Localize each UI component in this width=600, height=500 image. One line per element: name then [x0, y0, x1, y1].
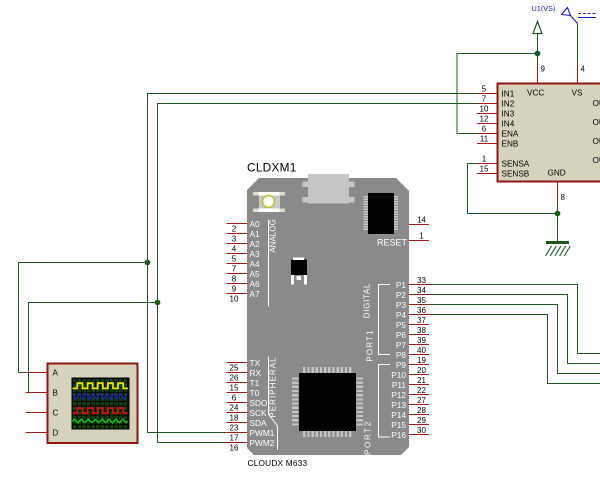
svg-text:1: 1: [482, 155, 487, 164]
svg-text:A: A: [53, 369, 59, 378]
label PERIPHERAL: [269, 356, 278, 417]
junction node scope B branch: [155, 300, 161, 306]
svg-text:5: 5: [232, 255, 237, 264]
board pin 39 (P7): [396, 336, 429, 350]
scope trace channel A yellow: [73, 383, 129, 388]
svg-text:P4: P4: [396, 310, 407, 320]
wire P4 out: [429, 315, 600, 384]
svg-text:PERIPHERAL: PERIPHERAL: [269, 356, 278, 417]
board pin 26 (RX): [227, 368, 262, 383]
U1 left pin names: [502, 89, 600, 179]
svg-text:RX: RX: [250, 368, 262, 378]
svg-text:6: 6: [232, 394, 237, 403]
svg-text:TX: TX: [250, 358, 261, 368]
label U1(VS): [532, 4, 556, 13]
board pin 23 (SDA): [227, 418, 268, 433]
op-amp U1 motor driver body: [498, 84, 600, 182]
wire VCC to ENA: [457, 54, 538, 134]
board pin 9 (A6): [227, 279, 261, 294]
svg-text:VS: VS: [572, 89, 583, 98]
power terminal flag U1(VS): [562, 8, 597, 24]
svg-text:28: 28: [417, 406, 426, 415]
board pin 40 (P8): [396, 346, 429, 360]
svg-text:P8: P8: [396, 350, 407, 360]
wire P1 out: [429, 285, 600, 354]
U1 pin 15 (SENSB): [477, 165, 498, 174]
board pin 38 (P6): [396, 326, 429, 340]
svg-text:CLOUDX M633: CLOUDX M633: [248, 458, 308, 468]
wire P2 out: [429, 295, 600, 364]
svg-text:SENSB: SENSB: [502, 170, 530, 179]
wire IN1 to PWM1: [148, 94, 478, 433]
board pin 27 (P13): [391, 396, 429, 410]
svg-text:P15: P15: [391, 420, 406, 430]
svg-text:P16: P16: [391, 430, 406, 440]
svg-text:24: 24: [230, 404, 239, 413]
board pin 34 (P2): [396, 286, 429, 300]
svg-text:A0: A0: [250, 219, 261, 229]
scope trace channel D green: [73, 419, 128, 423]
svg-text:A1: A1: [250, 229, 261, 239]
svg-text:12: 12: [480, 115, 489, 124]
svg-text:3: 3: [232, 235, 237, 244]
wire power to VCC pin: [537, 54, 539, 64]
svg-text:A4: A4: [250, 259, 261, 269]
svg-text:PORT2: PORT2: [364, 420, 373, 455]
board pin 2 (A0): [227, 219, 261, 234]
wire branch to scope A: [19, 263, 148, 373]
svg-text:9: 9: [541, 65, 546, 74]
svg-text:IN1: IN1: [502, 90, 515, 99]
svg-text:22: 22: [417, 386, 426, 395]
svg-text:19: 19: [417, 356, 426, 365]
svg-text:30: 30: [417, 426, 426, 435]
board pin 16 (PWM2): [227, 438, 275, 453]
svg-text:B: B: [53, 389, 58, 398]
svg-text:40: 40: [417, 346, 426, 355]
svg-text:20: 20: [417, 366, 426, 375]
label PORT2: [364, 420, 373, 455]
junction node VCC: [535, 51, 541, 57]
board pin 5 (A3): [227, 249, 261, 264]
svg-text:OUT3: OUT3: [593, 137, 600, 146]
svg-text:6: 6: [482, 125, 487, 134]
svg-text:29: 29: [417, 416, 426, 425]
svg-text:P13: P13: [391, 400, 406, 410]
push button: [253, 192, 285, 212]
PORT2 bracket: [379, 365, 391, 438]
voltage regulator: [291, 258, 307, 285]
svg-text:11: 11: [480, 135, 489, 144]
svg-text:36: 36: [417, 306, 426, 315]
svg-text:ENA: ENA: [502, 130, 519, 139]
svg-text:SDA: SDA: [250, 418, 268, 428]
svg-text:1: 1: [419, 232, 424, 241]
svg-text:P1: P1: [396, 280, 407, 290]
svg-text:17: 17: [230, 434, 239, 443]
scope trace channel C red: [73, 408, 129, 413]
svg-text:D: D: [53, 429, 59, 438]
svg-text:37: 37: [417, 316, 426, 325]
U1 pin 6 (ENA): [477, 125, 498, 134]
U1 pin 8 (GND): [558, 182, 566, 203]
USB connector: [303, 174, 355, 204]
peripheral separator line: [269, 357, 278, 451]
ground: [546, 241, 571, 256]
label PORT1: [366, 329, 375, 361]
power symbol VCC: [533, 22, 542, 54]
board pin 33 (P1): [396, 276, 429, 290]
svg-text:18: 18: [230, 414, 239, 423]
label CLDXM1: [247, 161, 297, 175]
RESET supervisor IC: [364, 193, 408, 248]
svg-text:P6: P6: [396, 330, 407, 340]
oscilloscope pin A: [26, 369, 59, 378]
svg-text:CLDXM1: CLDXM1: [247, 161, 297, 175]
wire IN2 to PWM2: [158, 104, 478, 443]
board pin 35 (P3): [396, 296, 429, 310]
U1 pin 5 (IN1): [477, 85, 498, 94]
board pin 8 (A5): [227, 269, 261, 284]
board pin 19 (P9): [396, 356, 429, 370]
svg-text:IN2: IN2: [502, 100, 515, 109]
board pin 1: [409, 232, 429, 241]
svg-text:25: 25: [230, 364, 239, 373]
oscilloscope pin B: [26, 389, 58, 398]
board pin 22 (P12): [391, 386, 429, 400]
svg-text:ANALOG: ANALOG: [269, 219, 278, 252]
board pin 18 (SCK): [227, 408, 268, 423]
oscilloscope screen: [72, 378, 130, 430]
svg-text:P14: P14: [391, 410, 406, 420]
QFP microcontroller chip: [292, 367, 363, 437]
svg-text:5: 5: [482, 85, 487, 94]
svg-text:IN4: IN4: [502, 120, 515, 129]
svg-text:DIGITAL: DIGITAL: [363, 283, 372, 318]
svg-text:27: 27: [417, 396, 426, 405]
U1 pin 10 (IN3): [477, 105, 498, 114]
svg-text:2: 2: [232, 225, 237, 234]
svg-text:10: 10: [480, 105, 489, 114]
svg-text:OUT1: OUT1: [593, 99, 600, 108]
svg-text:P3: P3: [396, 300, 407, 310]
board pin 29 (P15): [391, 416, 429, 430]
board pin 37 (P5): [396, 316, 429, 330]
label DIGITAL: [363, 283, 372, 318]
svg-text:4: 4: [232, 245, 237, 254]
svg-text:PWM2: PWM2: [250, 438, 275, 448]
scope trace channel B blue: [73, 394, 128, 400]
svg-text:9: 9: [232, 285, 237, 294]
svg-text:T0: T0: [250, 388, 260, 398]
svg-text:39: 39: [417, 336, 426, 345]
svg-text:8: 8: [232, 275, 237, 284]
board pin 25 (TX): [227, 358, 261, 373]
svg-text:P10: P10: [391, 370, 406, 380]
oscilloscope body: [48, 364, 138, 444]
label CLOUDX M633: [248, 458, 308, 468]
svg-text:P12: P12: [391, 390, 406, 400]
svg-text:P7: P7: [396, 340, 407, 350]
svg-text:P11: P11: [392, 380, 407, 390]
svg-text:OUT2: OUT2: [593, 118, 600, 127]
svg-text:A2: A2: [250, 239, 261, 249]
svg-text:P9: P9: [396, 360, 407, 370]
board pin 14: [409, 216, 429, 225]
svg-text:33: 33: [417, 276, 426, 285]
U1 pin 4 (VS): [578, 62, 586, 84]
svg-text:15: 15: [480, 165, 489, 174]
svg-text:8: 8: [561, 193, 566, 202]
svg-text:7: 7: [482, 95, 487, 104]
board pin 4 (A2): [227, 239, 261, 254]
U1 pin 11 (ENB): [477, 135, 498, 144]
svg-text:GND: GND: [548, 169, 566, 178]
svg-text:SCK: SCK: [250, 408, 268, 418]
svg-text:16: 16: [230, 444, 239, 453]
svg-text:VCC: VCC: [527, 89, 544, 98]
svg-text:26: 26: [230, 374, 239, 383]
svg-text:38: 38: [417, 326, 426, 335]
board pin 7 (A4): [227, 259, 261, 274]
PORT1 bracket: [379, 285, 391, 355]
wire branch to scope B: [26, 303, 158, 393]
junction node scope A branch: [145, 260, 151, 266]
svg-text:A7: A7: [250, 289, 261, 299]
U1 pin 9 (VCC): [538, 62, 546, 84]
board pin 24 (SDO): [227, 398, 269, 413]
svg-text:4: 4: [581, 65, 586, 74]
svg-text:PWM1: PWM1: [250, 428, 275, 438]
svg-text:15: 15: [230, 384, 239, 393]
svg-text:34: 34: [417, 286, 426, 295]
microcontroller board CLDXM1 body: [247, 178, 409, 455]
wire GND pin to ground: [557, 202, 559, 241]
wire VS flag to pin 4: [577, 24, 579, 64]
board pin 20 (P10): [391, 366, 429, 380]
board pin 15 (T1): [227, 378, 260, 393]
svg-text:SDO: SDO: [250, 398, 269, 408]
svg-text:OUT4: OUT4: [593, 156, 600, 165]
board pin 10 (A7): [227, 289, 261, 304]
junction node ground: [555, 211, 561, 217]
svg-text:P2: P2: [396, 290, 407, 300]
board pin 21 (P11): [392, 376, 429, 390]
svg-text:PORT1: PORT1: [366, 329, 375, 361]
svg-text:C: C: [53, 409, 59, 418]
svg-text:21: 21: [417, 376, 426, 385]
label ANALOG: [269, 219, 278, 252]
wire P3 out: [429, 305, 600, 374]
svg-text:SENSA: SENSA: [502, 160, 530, 169]
U1 pin 7 (IN2): [477, 95, 498, 104]
svg-text:14: 14: [417, 216, 426, 225]
svg-text:7: 7: [232, 265, 237, 274]
svg-text:A3: A3: [250, 249, 261, 259]
analog separator line: [268, 220, 270, 307]
board pin 3 (A1): [227, 229, 261, 244]
svg-text:P5: P5: [396, 320, 407, 330]
svg-text:A6: A6: [250, 279, 261, 289]
wire SENSA to ground: [468, 164, 558, 214]
board pin 17 (PWM1): [227, 428, 275, 443]
svg-text:10: 10: [230, 295, 239, 304]
oscilloscope pin D: [26, 429, 59, 438]
board pin 30 (P16): [391, 426, 429, 440]
svg-text:IN3: IN3: [502, 110, 515, 119]
svg-text:23: 23: [230, 424, 239, 433]
svg-text:U1(VS): U1(VS): [532, 4, 556, 13]
U1 pin 1 (SENSA): [477, 155, 498, 164]
board pin 28 (P14): [391, 406, 429, 420]
svg-text:ENB: ENB: [502, 140, 519, 149]
svg-text:A5: A5: [250, 269, 261, 279]
board pin 36 (P4): [396, 306, 429, 320]
U1 pin 12 (IN4): [477, 115, 498, 124]
svg-text:T1: T1: [250, 378, 260, 388]
svg-text:RESET: RESET: [377, 238, 408, 248]
oscilloscope pin C: [26, 409, 59, 418]
svg-text:35: 35: [417, 296, 426, 305]
board pin 6 (T0): [227, 388, 260, 403]
